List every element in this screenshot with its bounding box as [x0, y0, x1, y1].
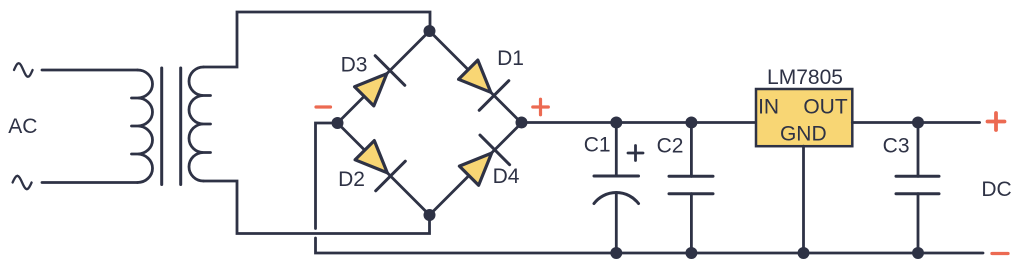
capacitor C3 plates	[896, 176, 939, 193]
label D1	[497, 47, 524, 70]
DC output minus sign	[992, 252, 1008, 255]
pin label OUT	[803, 96, 848, 119]
label LM7805	[767, 66, 843, 89]
diode D2	[355, 141, 405, 191]
svg-text:D1: D1	[497, 47, 524, 70]
capacitor C3 top lead	[917, 123, 920, 177]
label AC	[8, 115, 37, 138]
label C1	[584, 134, 611, 157]
svg-text:C2: C2	[657, 135, 684, 158]
svg-text:AC: AC	[8, 115, 37, 138]
junction node C1 top	[610, 117, 622, 129]
junction node bridge left	[332, 117, 344, 129]
svg-text:D3: D3	[341, 54, 368, 77]
svg-text:OUT: OUT	[803, 96, 848, 119]
label C2	[657, 135, 684, 158]
diode D1	[459, 60, 509, 110]
transformer T1 secondary winding	[189, 67, 211, 181]
C1 polarity plus sign	[628, 146, 643, 161]
junction node C2 top	[685, 117, 697, 129]
svg-text:D4: D4	[493, 165, 520, 188]
label C3	[883, 135, 910, 158]
junction node bridge top	[424, 25, 436, 37]
label D2	[338, 168, 365, 191]
wire regulator GND pin to negative rail	[802, 146, 805, 253]
wire AC top to transformer primary	[42, 69, 138, 72]
capacitor C1 top lead	[615, 123, 618, 177]
bridge diamond wires	[338, 31, 522, 215]
wire bridge plus node to regulator input	[522, 121, 757, 124]
svg-text:IN: IN	[758, 96, 779, 119]
junction node C3 bottom	[912, 247, 924, 259]
pin label GND	[780, 123, 827, 146]
pin label IN	[758, 96, 779, 119]
wire bridge minus node to negative rail (with hop over crossing wire)	[316, 123, 984, 253]
svg-text:GND: GND	[780, 123, 827, 146]
capacitor C1 bottom lead	[615, 193, 618, 253]
junction node C1 bottom	[610, 247, 622, 259]
bridge plus sign	[533, 99, 549, 115]
capacitor C2 plates	[669, 176, 713, 193]
svg-text:D2: D2	[338, 168, 365, 191]
wire secondary bottom to bridge bottom node	[204, 181, 430, 234]
regulator U1 LM7805 box	[756, 89, 852, 146]
svg-text:C3: C3	[883, 135, 910, 158]
svg-text:LM7805: LM7805	[767, 66, 843, 89]
AC source bottom terminal (sine symbol)	[13, 176, 32, 189]
capacitor C2 top lead	[690, 123, 693, 177]
capacitor C1 plates	[594, 176, 639, 204]
transformer T1 primary winding	[132, 70, 153, 183]
junction node C3 top	[912, 117, 924, 129]
junction node bridge right	[516, 117, 528, 129]
transformer T1 core	[162, 68, 181, 185]
label D4	[493, 165, 520, 188]
capacitor C2 bottom lead	[690, 194, 693, 253]
junction node GND bottom	[798, 247, 810, 259]
svg-text:DC: DC	[981, 178, 1011, 201]
wire secondary top to bridge top node	[204, 12, 431, 67]
DC output plus sign	[988, 113, 1005, 130]
diode D3	[355, 56, 405, 106]
junction node bridge bottom	[424, 209, 436, 221]
svg-text:C1: C1	[584, 134, 611, 157]
wire AC bottom to transformer primary	[42, 181, 138, 184]
AC source top terminal (sine symbol)	[14, 63, 33, 77]
bridge minus sign	[316, 105, 331, 108]
wire regulator output to DC plus	[852, 121, 979, 124]
label D3	[341, 54, 368, 77]
capacitor C3 bottom lead	[917, 194, 920, 253]
diode D4	[459, 135, 509, 185]
label DC	[981, 178, 1011, 201]
junction node C2 bottom	[685, 247, 697, 259]
